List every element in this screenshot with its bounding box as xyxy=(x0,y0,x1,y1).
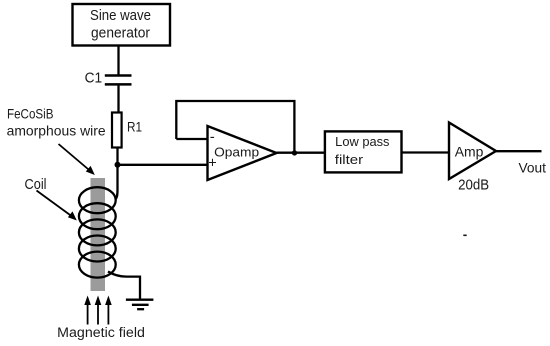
wire coil to ground xyxy=(108,272,140,300)
wire generator to C1 xyxy=(117,46,119,75)
wire node to opamp + input xyxy=(118,164,209,166)
capacitor C1 xyxy=(105,76,132,85)
wire opamp - input xyxy=(176,138,208,140)
FeCoSiB amorphous wire (gray bar) xyxy=(91,178,106,291)
amplifier Amp xyxy=(449,123,496,180)
wire opamp output xyxy=(277,152,326,154)
svg-text:Opamp: Opamp xyxy=(214,146,259,160)
resistor R1 xyxy=(112,113,122,148)
svg-text:Low pass: Low pass xyxy=(335,135,389,149)
magnetic field arrows xyxy=(88,304,109,325)
sine wave generator box xyxy=(73,4,171,46)
svg-text:C1: C1 xyxy=(85,69,103,86)
svg-text:Amp: Amp xyxy=(455,144,484,160)
svg-text:FeCoSiB: FeCoSiB xyxy=(7,105,54,121)
op-amp U1 xyxy=(208,126,277,180)
low pass filter box xyxy=(325,131,402,172)
svg-text:amorphous wire: amorphous wire xyxy=(7,123,106,139)
coil L1 xyxy=(79,187,116,277)
svg-text:Magnetic field: Magnetic field xyxy=(57,325,145,340)
wire feedback loop xyxy=(176,101,294,153)
wire R1 to coil xyxy=(115,148,117,200)
svg-text:filter: filter xyxy=(335,153,363,167)
svg-text:+: + xyxy=(208,156,216,172)
svg-text:generator: generator xyxy=(91,26,150,42)
arrow FeCoSiB label to wire xyxy=(59,144,95,175)
wire amp output xyxy=(496,150,542,152)
svg-text:Vout: Vout xyxy=(519,160,547,176)
svg-text:R1: R1 xyxy=(127,119,142,135)
ground xyxy=(126,300,153,310)
arrow Coil label to coil xyxy=(37,191,77,221)
label FeCoSiB amorphous wire xyxy=(7,105,106,138)
svg-text:Sine wave: Sine wave xyxy=(90,8,151,24)
svg-text:Coil: Coil xyxy=(25,177,47,193)
svg-text:-: - xyxy=(210,129,215,146)
wire C1 to R1 xyxy=(117,85,119,113)
node junction dot xyxy=(115,162,121,168)
wire filter to amp xyxy=(402,151,450,153)
svg-text:20dB: 20dB xyxy=(458,177,489,193)
stray dash mark xyxy=(463,235,466,237)
node output junction dot xyxy=(292,150,297,155)
